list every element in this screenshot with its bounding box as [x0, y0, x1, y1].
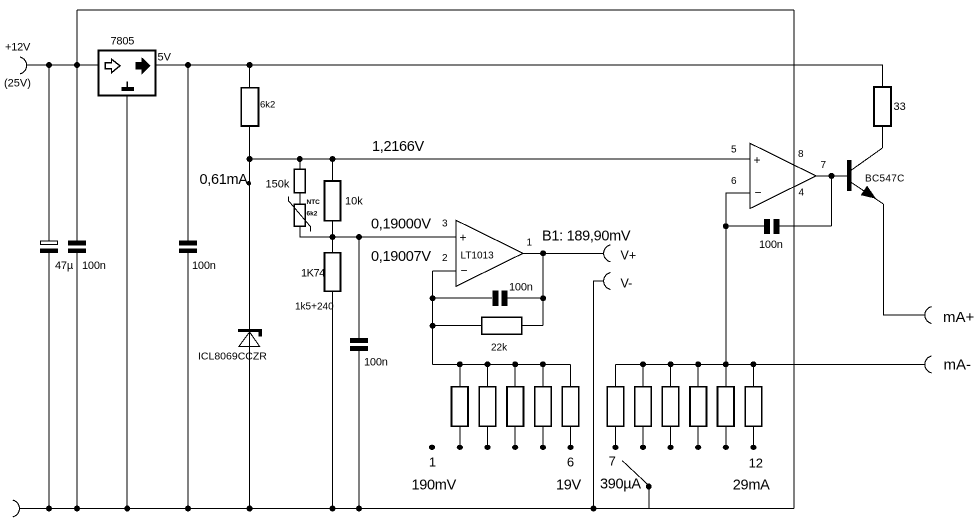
capacitor C5 100n feedback row wires [433, 297, 492, 299]
terminal dot 10 [695, 445, 701, 450]
capacitor C6 100n row wires [726, 225, 764, 227]
junction dot ground rail [330, 506, 336, 512]
wire: bottom ground rail (19,508.5)-(794,508.5) [19, 508, 794, 510]
junction dots C5 row [430, 295, 436, 301]
wire: U1 output to V+ connector (523,253.3)-(604,253.3) [523, 252, 604, 254]
resistor R3 10k top lead [332, 159, 334, 181]
diode D1 ICL8069 zener cathode bar with right foot [238, 331, 262, 337]
junction dot U2 output [829, 173, 835, 179]
svg-text:BC547C: BC547C [865, 174, 905, 185]
resistor RV2 (divider position 2) [459, 364, 461, 386]
resistor RI8 (shunt position 8) [642, 364, 644, 386]
capacitor C3 100n line lower segment [187, 253, 189, 509]
capacitor C3 100n line upper segment x=188 [187, 65, 189, 241]
svg-text:−: − [461, 264, 468, 278]
svg-text:33: 33 [894, 101, 906, 113]
junction dot left divider rail [540, 361, 546, 367]
svg-text:1,2166V: 1,2166V [372, 139, 425, 155]
resistor R1 6k2 body [241, 88, 258, 126]
svg-text:ICL8069CCZR: ICL8069CCZR [198, 351, 267, 363]
resistor RV5 (divider position 5) [542, 364, 544, 386]
wire: right divider top rail / mA- line (615.4,364.3)-(925.3,364.3) [615, 363, 925, 365]
junction dot ground rail [185, 506, 191, 512]
resistor R2 150k body [294, 169, 305, 193]
svg-text:100n: 100n [192, 260, 216, 272]
capacitor C1 47u plates (polarized, top plate hollow) [41, 241, 58, 245]
resistor RI7 (shunt position 7) [614, 364, 616, 386]
svg-text:NTC: NTC [307, 199, 321, 206]
junction dot U1 output [540, 250, 546, 256]
wire: feedback vertical x=432.6 down to divider rail [432, 271, 434, 364]
terminal dot 6 [568, 445, 574, 450]
svg-text:190mV: 190mV [412, 478, 457, 494]
resistor RV4 (divider position 4) [514, 364, 516, 386]
terminal dot 11 [723, 445, 729, 450]
wire: R6 to collector [881, 126, 883, 148]
junction dot right divider rail [750, 361, 756, 367]
capacitor C3 100n plates [179, 241, 197, 246]
svg-text:LT1013: LT1013 [461, 251, 495, 262]
resistor R4 1K74 lead and body [332, 237, 334, 253]
resistor R2 150k top lead [299, 159, 301, 169]
svg-text:6k2: 6k2 [307, 211, 318, 218]
wire: U1 pin2 input (432.6,271)-(456,271) [433, 270, 456, 272]
wire: wiper down to ground rail [648, 487, 650, 509]
svg-text:7: 7 [609, 454, 616, 469]
svg-text:29mA: 29mA [733, 478, 770, 494]
svg-text:8: 8 [798, 149, 804, 160]
wire: NTC bottom to 0,19000V node [300, 226, 456, 237]
7805 internal ground symbol (stub and bar) [126, 82, 128, 88]
connector J5 mA+ (arc) [925, 307, 932, 324]
connector J2 ground return (arc) [13, 500, 20, 517]
junction dot wiper [646, 484, 652, 490]
junction dots on reference rail [247, 156, 253, 162]
svg-text:47µ: 47µ [55, 260, 74, 272]
capacitor C1 47u line lower segment [48, 253, 50, 509]
junction dot left divider rail [485, 361, 491, 367]
junction dots on 0,19000V node wire [330, 234, 336, 240]
terminal dot 2 [457, 445, 463, 450]
junction dot left divider rail [512, 361, 518, 367]
connector J6 mA- (arc) [925, 356, 932, 373]
transistor Q1 emitter arrow [862, 187, 876, 198]
svg-text:1K74: 1K74 [301, 268, 325, 280]
svg-text:0,19007V: 0,19007V [371, 249, 431, 265]
svg-text:150k: 150k [266, 179, 290, 191]
junction dot right divider rail [695, 361, 701, 367]
svg-text:+: + [460, 231, 467, 245]
svg-text:+: + [754, 153, 761, 167]
junction dot ground rail [356, 506, 362, 512]
svg-text:19V: 19V [556, 478, 582, 494]
junction dot ground rail [124, 506, 130, 512]
diode D1 ICL8069 anode triangle [239, 332, 260, 347]
junction dot ground rail [46, 506, 52, 512]
regulator U3 7805 box [99, 51, 156, 96]
thermistor RT1 NTC body [294, 204, 305, 226]
resistor R5 22k leads [433, 325, 482, 327]
capacitor C2 100n plates at x=77 [68, 241, 86, 246]
svg-text:22k: 22k [491, 343, 508, 354]
switch wiper diagonal from terminal 7 [622, 461, 649, 486]
svg-text:12: 12 [749, 456, 763, 471]
wire: U2 output to transistor base (816,175.9)-(847,175.9) [816, 175, 847, 177]
svg-text:390µA: 390µA [600, 477, 641, 493]
svg-text:2: 2 [442, 253, 448, 264]
junction dot ground rail [591, 506, 597, 512]
wire: R2 to NTC [299, 193, 301, 204]
capacitor C4 100n upper lead x=359 [358, 237, 360, 338]
svg-text:100n: 100n [509, 282, 533, 294]
resistor R6 33 body [874, 87, 891, 126]
junction dots on +5V rail [46, 62, 52, 68]
wire: R3 bottom lead to node [332, 221, 334, 237]
connector J3 V+ (arc) [604, 245, 611, 262]
wire: 7805 ground pin down to ground rail x=127.2 [126, 96, 128, 509]
wire: emitter down then right to mA+ [883, 204, 925, 315]
svg-text:V+: V+ [621, 249, 637, 263]
resistor RV3 (divider position 3) [487, 364, 489, 386]
junction dot right divider rail [668, 361, 674, 367]
wire: left divider top rail (432.6,364.3)-(570.6,364.3) [433, 363, 571, 365]
junction dot left divider rail [457, 361, 463, 367]
op-amp U1 LT1013 triangle [456, 220, 523, 286]
wire: right border x=794 (op-amp U2 supply, pin8 to pin4, to ground rail) [793, 10, 795, 509]
svg-text:B1: 189,90mV: B1: 189,90mV [542, 229, 631, 245]
svg-text:mA+: mA+ [943, 309, 975, 326]
wire: left vertical x=77 upper segment (to 100n C2 top plate) [76, 10, 78, 241]
svg-text:4: 4 [799, 188, 805, 199]
svg-text:100n: 100n [759, 239, 783, 251]
svg-text:6: 6 [731, 176, 737, 187]
svg-text:+12V: +12V [5, 42, 31, 54]
svg-text:100n: 100n [82, 260, 106, 272]
capacitor C6 100n plates (vertical) [764, 219, 770, 234]
wire: V- lead left then down to ground rail [594, 281, 605, 509]
junction dot right divider rail [723, 361, 729, 367]
junction dot right divider rail [640, 361, 646, 367]
junction dot C6 left [723, 223, 729, 229]
capacitor C5 100n plates (vertical) [492, 291, 498, 306]
svg-text:5V: 5V [158, 52, 172, 64]
junction dot 22k left [430, 323, 436, 329]
op-amp U2 triangle [750, 143, 816, 208]
svg-text:6k2: 6k2 [260, 100, 275, 111]
terminal dot 3 [484, 445, 490, 450]
wire: top border +12V feed (77,10)-(794,10) [77, 9, 794, 11]
wire: output down to C6 row [831, 176, 833, 226]
capacitor C4 100n plates [350, 338, 368, 343]
svg-text:(25V): (25V) [4, 78, 31, 90]
svg-text:−: − [755, 186, 762, 200]
transistor Q1 emitter diagonal [851, 183, 883, 205]
terminal dot 9 [668, 445, 674, 450]
wire: 5V to R1 6k2 and down reference chain x=249.6 [249, 65, 251, 509]
svg-text:10k: 10k [345, 196, 363, 208]
wire: C4 bottom to ground rail [358, 351, 360, 509]
svg-text:7805: 7805 [111, 36, 135, 48]
terminal dot 4 [512, 445, 518, 450]
resistor RI12 (shunt position 12) [752, 364, 754, 386]
capacitor C1 47u line upper segment x=49 [48, 65, 50, 241]
svg-text:7: 7 [821, 160, 827, 171]
thermistor RT1 diagonal stroke [289, 196, 311, 231]
terminal dot 5 [540, 445, 546, 450]
resistor R3 10k body [325, 181, 341, 221]
svg-text:0,61mA: 0,61mA [200, 172, 249, 188]
wire: 1.2166V reference rail (249.6,159)-(749.8,159) [250, 158, 750, 160]
wire: R4 bottom to ground rail [332, 291, 334, 508]
terminal dot 8 [640, 445, 646, 450]
resistor RI10 (shunt position 10) [697, 364, 699, 386]
resistor RV6 (divider position 6) [570, 364, 572, 386]
terminal dot 1 (direct tap) [429, 445, 435, 450]
resistor R5 22k body [482, 317, 522, 334]
transistor Q1 collector diagonal [851, 148, 882, 170]
svg-text:3: 3 [442, 219, 448, 230]
wire: 5V rail (155.5,65)-(882.4,65) then down to R33 [156, 65, 883, 87]
terminal dot 12 [750, 445, 756, 450]
resistor RI11 (shunt position 11) [725, 364, 727, 386]
svg-text:0,19000V: 0,19000V [371, 217, 431, 233]
resistor RI9 (shunt position 9) [670, 364, 672, 386]
svg-text:6: 6 [567, 455, 574, 470]
svg-text:1k5+240: 1k5+240 [295, 302, 334, 313]
7805 output arrow (filled) [136, 58, 150, 73]
svg-text:5: 5 [731, 145, 737, 156]
junction dot near 0,61mA label [247, 181, 251, 185]
transistor Q1 BC547C base bar [847, 160, 852, 191]
wire: U2 pin6 input and feedback down to divider rail [726, 193, 750, 364]
wire: output feedback vertical x=543.1 [542, 253, 544, 325]
svg-text:V-: V- [621, 277, 633, 291]
svg-text:mA-: mA- [944, 357, 972, 374]
svg-text:1: 1 [527, 238, 533, 249]
terminal dot 7 [612, 445, 618, 450]
svg-text:100n: 100n [364, 357, 388, 369]
7805 input arrow (open) [105, 59, 120, 72]
svg-text:1: 1 [429, 455, 436, 470]
wire: +12V rail from J1 to 7805 input (26,65)-(98.5,65) [26, 64, 99, 66]
connector J1 +12V input (arc) [20, 57, 27, 74]
connector J4 V- (arc) [604, 273, 611, 290]
junction dot ground rail [247, 506, 253, 512]
wire: left vertical x=77 lower segment (100n C2 bottom to ground rail) [76, 253, 78, 509]
junction dot ground rail [74, 506, 80, 512]
